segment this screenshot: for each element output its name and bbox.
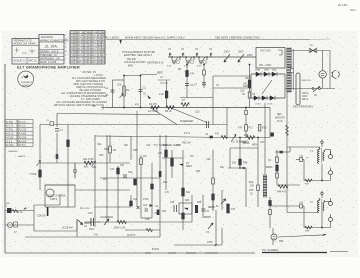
svg-text:DESIGN: DESIGN bbox=[22, 85, 30, 87]
voltage tap arrows bbox=[224, 54, 244, 62]
svg-text:BAL: BAL bbox=[84, 166, 89, 169]
svg-text:MIC: MIC bbox=[6, 203, 10, 205]
svg-text:1M: 1M bbox=[143, 155, 146, 158]
svg-text:P.U.: P.U. bbox=[94, 234, 99, 237]
svg-text:SCREENED: SCREENED bbox=[180, 120, 194, 123]
svg-text:L5 45: L5 45 bbox=[255, 104, 261, 106]
svg-text:25uF: 25uF bbox=[89, 228, 95, 231]
svg-text:FERRANTI: FERRANTI bbox=[21, 81, 32, 84]
svg-text:R9 4K: R9 4K bbox=[92, 32, 99, 34]
svg-text:R1 1M: R1 1M bbox=[78, 32, 85, 34]
svg-text:R20 4: R20 4 bbox=[92, 62, 99, 64]
heater V2 bbox=[186, 57, 192, 63]
svg-text:R13 4: R13 4 bbox=[92, 46, 99, 48]
heater feed down bbox=[264, 103, 266, 175]
svg-text:MRC: MRC bbox=[272, 70, 277, 72]
svg-text:6.3V: 6.3V bbox=[167, 66, 172, 68]
svg-text:SH.1: SH.1 bbox=[350, 8, 356, 12]
svg-text:2C28 4M: 2C28 4M bbox=[62, 226, 73, 230]
OPT2 windings bbox=[318, 199, 320, 213]
svg-text:S1 SW: S1 SW bbox=[99, 59, 107, 61]
svg-text:R28: R28 bbox=[163, 144, 168, 147]
svg-text:4700: 4700 bbox=[207, 241, 213, 244]
svg-text:MR2: MR2 bbox=[252, 145, 258, 147]
fuse F1 bbox=[309, 48, 317, 53]
svg-text:R22: R22 bbox=[104, 148, 109, 151]
cap on wire bbox=[207, 121, 209, 128]
vertical x40 bbox=[39, 125, 41, 191]
title block centre box bbox=[39, 35, 64, 65]
smoothing can bbox=[296, 73, 300, 105]
pot arrow on rail bbox=[232, 135, 237, 142]
svg-text:C23: C23 bbox=[143, 205, 148, 207]
heater winding vertical bbox=[263, 175, 267, 197]
cap mid bbox=[73, 163, 77, 178]
svg-text:240V: 240V bbox=[247, 54, 253, 57]
svg-text:4.7K: 4.7K bbox=[18, 211, 23, 214]
svg-text:R8 1K: R8 1K bbox=[78, 55, 85, 57]
feedback box A bbox=[303, 160, 305, 181]
V2 box top bbox=[213, 75, 251, 77]
svg-text:MAINS INPUT 200-250V 50c/s A.C: MAINS INPUT 200-250V 50c/s A.C. SUPPLY O… bbox=[125, 36, 185, 40]
transformer core line bbox=[292, 49, 294, 90]
bus resistor RV2 bbox=[151, 106, 159, 110]
heater chain wire bbox=[168, 57, 256, 63]
input blob bbox=[7, 208, 12, 213]
bus resistor RV3 bbox=[166, 106, 174, 110]
svg-text:240: 240 bbox=[243, 83, 248, 86]
svg-text:S2 SW: S2 SW bbox=[99, 62, 107, 64]
svg-text:MR1: MR1 bbox=[128, 65, 134, 68]
svg-text:A1 6.3: A1 6.3 bbox=[19, 121, 27, 124]
svg-text:R23: R23 bbox=[99, 154, 104, 157]
svg-text:R4 6K: R4 6K bbox=[78, 42, 85, 44]
speaker terminals ch A bbox=[329, 155, 333, 159]
svg-text:C23: C23 bbox=[110, 168, 115, 171]
transformer T1 primary winding bbox=[287, 48, 291, 92]
svg-text:C8 25: C8 25 bbox=[71, 55, 78, 57]
svg-text:CHASSIS: CHASSIS bbox=[8, 150, 18, 153]
OPT1 windings bbox=[318, 148, 320, 164]
valve circle V3 bbox=[46, 189, 54, 197]
wire C36 bbox=[270, 205, 304, 207]
svg-text:V4 6V: V4 6V bbox=[99, 42, 106, 44]
svg-text:220: 220 bbox=[250, 185, 255, 188]
svg-text:C17.5: C17.5 bbox=[71, 59, 78, 61]
diagonal lead 1 bbox=[150, 108, 177, 125]
svg-text:6BW6: 6BW6 bbox=[204, 216, 211, 219]
svg-text:80mA: 80mA bbox=[302, 98, 309, 101]
svg-text:R32 1M: R32 1M bbox=[182, 142, 190, 145]
svg-text:T2 OP: T2 OP bbox=[99, 52, 106, 54]
svg-text:R18: R18 bbox=[262, 127, 267, 130]
zigzag bottom of feedback box A bbox=[305, 179, 312, 182]
svg-text:C28 1M: C28 1M bbox=[37, 215, 45, 218]
svg-text:C4.02: C4.02 bbox=[71, 42, 78, 44]
svg-text:V2 6B: V2 6B bbox=[99, 36, 106, 38]
wire bbox=[180, 97, 213, 99]
svg-text:R27: R27 bbox=[162, 211, 167, 213]
ground bus A bbox=[105, 107, 270, 109]
heater envelope circles bbox=[172, 60, 206, 63]
comp on x68 bbox=[67, 140, 70, 147]
svg-text:RES: RES bbox=[277, 114, 282, 116]
cathode arrow transistor bbox=[78, 220, 83, 225]
big loop left bbox=[94, 135, 96, 227]
svg-text:C24: C24 bbox=[128, 171, 133, 174]
svg-text:RECTIFIER MR1: RECTIFIER MR1 bbox=[293, 105, 313, 109]
svg-text:LOUDNESS: LOUDNESS bbox=[100, 216, 114, 219]
svg-text:R26 470K: R26 470K bbox=[80, 208, 90, 210]
svg-text:R6 2K: R6 2K bbox=[78, 49, 85, 51]
V2 box left bbox=[212, 76, 214, 125]
left lower table bbox=[5, 120, 33, 147]
pilot lamp LP1 bbox=[319, 71, 326, 78]
svg-text:R33: R33 bbox=[185, 200, 190, 202]
rail y185 bbox=[45, 184, 75, 186]
svg-text:UNITS: UNITS bbox=[50, 198, 58, 201]
vertical x57 bbox=[56, 114, 58, 128]
svg-text:R50: R50 bbox=[279, 240, 284, 243]
rail 125 bbox=[40, 124, 227, 126]
bridge rectifier MR1 bbox=[243, 74, 285, 98]
svg-text:C24: C24 bbox=[146, 144, 151, 147]
input socket bbox=[8, 223, 13, 228]
svg-text:R4 470: R4 470 bbox=[149, 103, 157, 106]
OPT2 primary feed bbox=[287, 212, 318, 214]
loudness pot bbox=[104, 219, 109, 225]
small cap top of transformer bbox=[291, 69, 294, 73]
svg-text:6BW6: 6BW6 bbox=[208, 206, 215, 209]
svg-text:C27: C27 bbox=[176, 144, 181, 147]
svg-text:22K: 22K bbox=[232, 162, 237, 165]
resistor drop x110 bbox=[109, 135, 111, 163]
svg-text:2K2: 2K2 bbox=[103, 178, 108, 181]
pot arrow bbox=[208, 223, 213, 229]
svg-text:L6 45: L6 45 bbox=[267, 104, 273, 106]
svg-text:6BR7: 6BR7 bbox=[157, 72, 164, 75]
pickup box bbox=[34, 205, 77, 231]
svg-text:25u: 25u bbox=[124, 144, 129, 147]
svg-text:R25: R25 bbox=[133, 149, 138, 152]
svg-text:A7 6.3: A7 6.3 bbox=[19, 144, 27, 147]
svg-text:EARTHED. SEE NOTE 4: EARTHED. SEE NOTE 4 bbox=[124, 54, 153, 57]
svg-text:SMOOTH: SMOOTH bbox=[302, 80, 312, 82]
svg-text:R12 4: R12 4 bbox=[92, 42, 99, 44]
rails bbox=[100, 177, 160, 179]
svg-text:6BW6: 6BW6 bbox=[266, 166, 273, 169]
svg-text:R18 2: R18 2 bbox=[92, 59, 99, 61]
svg-text:R15 2: R15 2 bbox=[92, 52, 99, 54]
svg-text:R11 2: R11 2 bbox=[92, 39, 99, 41]
cap bar in pickup box bbox=[47, 207, 49, 216]
V1 anode drop bbox=[166, 80, 168, 108]
svg-text:V1 6B: V1 6B bbox=[99, 32, 106, 34]
rail y163 bbox=[40, 162, 130, 164]
capacitor C1 bbox=[111, 90, 115, 92]
bridge diodes top row bbox=[256, 72, 277, 76]
note text block bbox=[122, 51, 155, 68]
V2 box mid bbox=[213, 87, 251, 89]
bottom border line bbox=[5, 252, 255, 254]
svg-text:C25: C25 bbox=[170, 202, 175, 204]
svg-text:R34: R34 bbox=[196, 170, 201, 173]
svg-text:MODEL 355 GRAM: MODEL 355 GRAM bbox=[14, 43, 36, 46]
svg-text:C5.05: C5.05 bbox=[71, 46, 78, 48]
svg-text:2L 15A: 2L 15A bbox=[338, 3, 347, 7]
svg-text:47K: 47K bbox=[120, 164, 125, 167]
svg-text:R21 470K: R21 470K bbox=[83, 158, 94, 161]
svg-text:1M: 1M bbox=[190, 155, 193, 158]
coupling cap C4 bbox=[185, 84, 189, 86]
svg-text:C29: C29 bbox=[206, 158, 211, 161]
R40 C35 labels bbox=[249, 181, 255, 196]
capacitor C2 bbox=[139, 90, 143, 92]
svg-text:C15: C15 bbox=[195, 111, 200, 114]
svg-text:R2 4K: R2 4K bbox=[78, 36, 85, 38]
svg-text:230V: 230V bbox=[224, 51, 230, 54]
svg-text:47K: 47K bbox=[135, 105, 140, 107]
inspection stamp circle bbox=[18, 71, 34, 87]
svg-text:C7.04: C7.04 bbox=[71, 52, 78, 54]
svg-text:R3 2K: R3 2K bbox=[78, 39, 85, 41]
svg-text:R35: R35 bbox=[197, 202, 202, 204]
cathode resistor R3 bbox=[165, 91, 168, 98]
anode resistor R9 bbox=[186, 71, 189, 77]
cathode R11 bbox=[248, 92, 251, 98]
title block left cell text bbox=[14, 40, 38, 63]
parts table grid bbox=[70, 31, 105, 65]
svg-text:A.F GAIN: A.F GAIN bbox=[148, 110, 159, 113]
wire C1 drop bbox=[112, 80, 114, 108]
svg-text:C15.1: C15.1 bbox=[85, 52, 92, 54]
svg-text:C14.5: C14.5 bbox=[85, 49, 92, 51]
wire bbox=[113, 79, 125, 81]
svg-text:R7 5K: R7 5K bbox=[78, 52, 85, 54]
svg-text:500K LOG: 500K LOG bbox=[114, 227, 125, 230]
svg-text:ON - OFF: ON - OFF bbox=[259, 63, 272, 67]
connector arrow bbox=[147, 95, 151, 99]
svg-text:A6 200: A6 200 bbox=[19, 140, 27, 143]
svg-text:22K: 22K bbox=[92, 166, 97, 169]
lower channel labels bbox=[92, 143, 225, 221]
svg-text:C37: C37 bbox=[260, 141, 265, 144]
title block outer box bbox=[12, 39, 39, 65]
svg-text:R38: R38 bbox=[243, 162, 248, 165]
svg-text:SCALE 1:1: SCALE 1:1 bbox=[14, 60, 27, 63]
svg-text:R5 1M: R5 1M bbox=[78, 46, 85, 48]
svg-text:P.U. SCREEN: P.U. SCREEN bbox=[262, 248, 278, 252]
svg-text:A2 6.3: A2 6.3 bbox=[19, 125, 27, 128]
volume pot R1 bbox=[123, 86, 126, 96]
OPT1 primary feed bbox=[287, 146, 320, 148]
extra small parts row ch B bbox=[137, 206, 140, 209]
svg-text:HEATERS 6.3V: HEATERS 6.3V bbox=[147, 62, 164, 65]
svg-text:C13 8: C13 8 bbox=[85, 46, 92, 48]
heater junction dots bbox=[171, 56, 208, 58]
diagonal lead 2 bbox=[170, 108, 207, 123]
svg-text:C11 8: C11 8 bbox=[85, 39, 92, 41]
svg-text:TONE: TONE bbox=[30, 173, 37, 176]
svg-text:6BR7: 6BR7 bbox=[186, 165, 193, 168]
svg-text:VOL: VOL bbox=[117, 84, 122, 87]
svg-text:C10 2: C10 2 bbox=[85, 36, 92, 38]
svg-text:V3 6V: V3 6V bbox=[99, 39, 106, 41]
OPT2 leads bbox=[321, 195, 323, 198]
svg-text:LT 6.3: LT 6.3 bbox=[6, 140, 13, 143]
anode load R10 bbox=[248, 80, 251, 88]
svg-text:A4 280: A4 280 bbox=[19, 133, 27, 136]
svg-text:R10 1: R10 1 bbox=[92, 36, 99, 38]
mains switch S2 bbox=[312, 86, 320, 92]
svg-text:C12.1: C12.1 bbox=[85, 42, 92, 44]
svg-text:P.U. 2: P.U. 2 bbox=[184, 133, 191, 135]
gap column marks bbox=[65, 35, 68, 61]
bridge diode labels bbox=[255, 69, 277, 106]
svg-text:V1 95v: V1 95v bbox=[6, 121, 14, 124]
junction dots channel A bbox=[123, 64, 250, 109]
pot arrows on x40 bbox=[37, 161, 41, 167]
svg-text:25u: 25u bbox=[220, 166, 225, 169]
svg-text:2L 15A: 2L 15A bbox=[45, 45, 57, 49]
svg-text:C20 4: C20 4 bbox=[85, 62, 92, 64]
heater V1 bbox=[172, 57, 178, 63]
svg-text:T1 OP: T1 OP bbox=[99, 49, 106, 51]
bottom rail bbox=[25, 236, 160, 238]
svg-text:470: 470 bbox=[165, 191, 170, 194]
box channel B tone bbox=[179, 203, 192, 214]
svg-text:C3.05: C3.05 bbox=[71, 39, 78, 41]
svg-text:C22: C22 bbox=[133, 199, 138, 201]
svg-text:P.U. LEADS: P.U. LEADS bbox=[106, 37, 119, 40]
svg-text:C18 8: C18 8 bbox=[85, 59, 92, 61]
parts table cell text bbox=[71, 32, 107, 64]
OPT1 leads bbox=[325, 149, 331, 151]
svg-text:C6.01: C6.01 bbox=[71, 49, 78, 51]
cap C14 bbox=[91, 218, 94, 226]
stage2 HT drop bbox=[186, 65, 188, 98]
svg-text:C14: C14 bbox=[88, 212, 93, 215]
svg-text:WITH NO SIGNAL INPUT APPLIED T: WITH NO SIGNAL INPUT APPLIED TO PU bbox=[54, 103, 104, 107]
box tone units bbox=[45, 185, 75, 207]
components on x270 bbox=[269, 201, 272, 206]
svg-text:1K: 1K bbox=[242, 93, 245, 96]
V4 anode column bbox=[276, 150, 278, 185]
svg-text:30 W: 30 W bbox=[277, 121, 283, 123]
svg-text:8uF: 8uF bbox=[186, 191, 191, 194]
bass zigzag bbox=[247, 136, 255, 140]
svg-text:R6 1K: R6 1K bbox=[165, 110, 172, 113]
feedback box B bbox=[303, 206, 305, 228]
title block centre text bbox=[40, 36, 69, 64]
svg-text:ELT GRAMOPHONE AMPLIFIER: ELT GRAMOPHONE AMPLIFIER bbox=[17, 64, 80, 69]
svg-text:C26: C26 bbox=[145, 218, 150, 221]
svg-text:C31: C31 bbox=[242, 141, 247, 144]
svg-text:MRB: MRB bbox=[264, 70, 269, 72]
svg-text:R14 1: R14 1 bbox=[92, 49, 99, 51]
svg-text:250V: 250V bbox=[238, 51, 244, 54]
svg-text:R31: R31 bbox=[163, 181, 168, 184]
svg-text:C1.05: C1.05 bbox=[71, 32, 78, 34]
lamp supply loop bbox=[285, 51, 335, 89]
HT rail B bbox=[239, 138, 241, 169]
bridge diodes bottom row bbox=[254, 96, 275, 100]
heater junction arrows up bbox=[169, 53, 212, 57]
svg-text:R17: R17 bbox=[249, 127, 254, 130]
coupling cap drop bbox=[140, 76, 142, 108]
mains distribution wire bbox=[106, 38, 330, 41]
svg-text:A3 315: A3 315 bbox=[19, 129, 27, 132]
svg-text:02 PTV: 02 PTV bbox=[127, 234, 136, 237]
svg-text:47K: 47K bbox=[231, 208, 236, 211]
svg-text:C2.01: C2.01 bbox=[71, 36, 78, 38]
cathode zigzag bbox=[278, 185, 288, 188]
svg-text:MRA: MRA bbox=[255, 69, 260, 72]
svg-text:MR B1: MR B1 bbox=[99, 46, 107, 48]
svg-text:V3 95v: V3 95v bbox=[6, 129, 14, 132]
title block centre details bbox=[39, 42, 64, 60]
svg-text:VOLT ADJ: VOLT ADJ bbox=[260, 50, 271, 53]
svg-text:6.3V: 6.3V bbox=[184, 66, 189, 68]
svg-text:C16 8: C16 8 bbox=[85, 55, 92, 57]
screen drop bbox=[203, 65, 205, 89]
blob on y100 wire bbox=[181, 103, 189, 107]
wire bbox=[124, 75, 141, 77]
svg-text:R16 1: R16 1 bbox=[92, 55, 99, 57]
arrowhead on rail bbox=[322, 234, 327, 236]
rail 113.5 bbox=[57, 114, 160, 115]
feedback wire A bbox=[296, 159, 304, 161]
anode load drop bbox=[249, 65, 251, 108]
wire bbox=[275, 151, 290, 153]
B+ terminal bbox=[321, 141, 323, 143]
svg-text:1M: 1M bbox=[126, 89, 129, 92]
cathode rail bbox=[277, 184, 300, 186]
svg-text:DRG 2L: DRG 2L bbox=[28, 60, 38, 63]
components lower channel bbox=[165, 150, 168, 157]
rail y135 bbox=[155, 137, 227, 138]
title block left cell details bbox=[12, 46, 39, 65]
screen resistor bbox=[203, 70, 206, 75]
svg-text:SMOOTH: SMOOTH bbox=[275, 118, 285, 120]
HT dropper on x287 bbox=[286, 125, 289, 135]
HT rail down from rectifier bbox=[286, 91, 288, 147]
svg-text:R16: R16 bbox=[244, 134, 249, 137]
screen wire bbox=[278, 235, 326, 237]
feedback comp B bbox=[300, 204, 303, 208]
cap on x57 bbox=[55, 129, 59, 132]
heater labels bbox=[167, 48, 213, 68]
mains connector plug bbox=[332, 70, 336, 78]
svg-text:470K: 470K bbox=[143, 198, 149, 201]
arrow junction on mains line bbox=[120, 40, 122, 44]
svg-text:250V: 250V bbox=[245, 77, 251, 80]
svg-text:C9 8u: C9 8u bbox=[85, 32, 92, 34]
feedback comp A bbox=[300, 158, 303, 162]
svg-text:27K: 27K bbox=[158, 152, 163, 155]
volume pot track bbox=[123, 76, 125, 108]
zigzag on rail163 bbox=[84, 161, 93, 165]
svg-text:47K: 47K bbox=[238, 127, 243, 130]
svg-text:6.3V: 6.3V bbox=[197, 66, 202, 68]
svg-text:B (PU): B (PU) bbox=[152, 248, 159, 251]
svg-text:EARTH: EARTH bbox=[18, 155, 26, 158]
voltage table text bbox=[6, 121, 27, 147]
svg-text:HT 250: HT 250 bbox=[6, 136, 14, 139]
svg-text:1M: 1M bbox=[113, 149, 116, 152]
V5 tube circle bbox=[271, 234, 277, 240]
notes paragraph bbox=[54, 70, 107, 107]
